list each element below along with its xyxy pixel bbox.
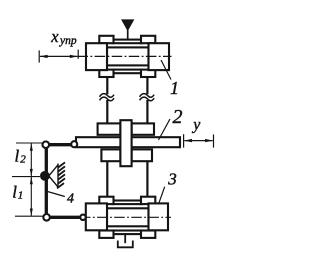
svg-text:2: 2 [20, 154, 26, 166]
lever bottom link [46, 216, 83, 219]
cylinder 2 piston rod [76, 137, 180, 147]
leader label 4 [48, 192, 65, 197]
svg-text:3: 3 [167, 169, 177, 188]
valve 3 spool left land [86, 203, 107, 230]
svg-text:y: y [191, 116, 201, 133]
leader label 1 [161, 60, 171, 80]
joint circle lever-bottom [43, 214, 50, 221]
pipe valve1-left to cylinder [106, 77, 108, 94]
joint circle rod end [71, 141, 77, 147]
valve 3 body bottom plate [113, 231, 143, 235]
pivot filled circle [40, 171, 50, 181]
cylinder top-right flange [132, 123, 154, 134]
joint circle lever-top [43, 141, 50, 148]
valve 1 spool rod [107, 47, 149, 65]
pipe cylinder to valve3 left [106, 161, 108, 197]
cylinder piston [120, 120, 131, 166]
valve 1 spool right land [149, 43, 170, 70]
valve 1 spool left land [86, 43, 107, 70]
tank stem wire [124, 233, 126, 243]
valve 1 body top-left ear [99, 36, 113, 43]
valve 3 body top plate [113, 201, 143, 205]
pipe cylinder to valve3 right [146, 161, 148, 197]
valve 1 body bottom-right ear [141, 70, 155, 77]
lever bar (vertical) [45, 145, 48, 218]
svg-text:1: 1 [18, 190, 24, 202]
valve 1 body bottom-left ear [99, 70, 113, 77]
valve 3 (lower spool valve) [80, 197, 171, 238]
svg-text:упр: упр [59, 35, 77, 47]
svg-text:4: 4 [67, 192, 74, 207]
pressure supply triangle [122, 20, 134, 30]
pipe valve1-right to cylinder [146, 77, 148, 94]
fixed pivot support triangle [49, 164, 58, 188]
valve 3 body bottom-left ear [99, 231, 113, 238]
dimension x_upr [39, 50, 78, 63]
extension line top [16, 142, 43, 144]
valve 1 body top-right ear [141, 36, 155, 43]
leader label 3 [159, 187, 165, 204]
svg-text:1: 1 [170, 78, 179, 98]
valve 3 body top-left ear [99, 197, 113, 204]
extension line middle (pivot) [12, 176, 40, 178]
break symbol right pipe [140, 94, 155, 98]
valve 1 body bottom plate [113, 70, 143, 74]
lever top link [46, 143, 74, 146]
svg-text:l: l [12, 182, 17, 201]
cylinder bottom-right flange [132, 149, 152, 161]
leader label 2 [159, 119, 171, 140]
valve 1 axis line [78, 55, 172, 57]
extension line bottom [15, 215, 43, 217]
supply stem wire [127, 29, 129, 40]
valve 1 body top plate [113, 40, 143, 44]
valve 3 spool right land [149, 203, 169, 230]
cylinder bottom-left flange [101, 149, 120, 161]
svg-text:x: x [50, 27, 59, 46]
valve 3 axis line [80, 216, 171, 218]
valve 3 spool rod [107, 208, 149, 226]
valve 3 body top-right ear [141, 197, 155, 204]
tank symbol [118, 241, 133, 248]
dimension l1 line [30, 177, 32, 216]
break symbol left pipe [100, 94, 115, 98]
svg-text:l: l [15, 146, 20, 165]
valve 3 body bottom-right ear [141, 231, 155, 238]
dimension l2 line [30, 143, 32, 176]
svg-text:2: 2 [173, 106, 183, 128]
dimension y [184, 134, 214, 147]
valve 1 (upper spool valve) [78, 36, 172, 77]
cylinder top-left flange [98, 123, 121, 134]
joint circle valve3 spool [80, 215, 85, 220]
support hatching [57, 162, 65, 188]
